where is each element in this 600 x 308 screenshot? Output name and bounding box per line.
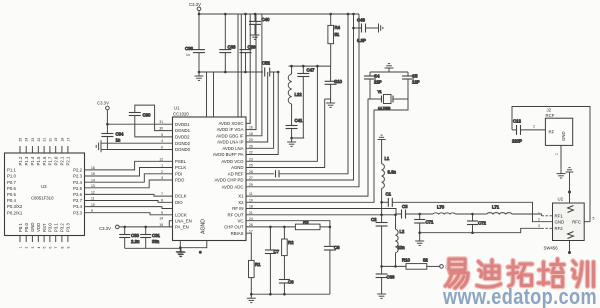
svg-text:P1.5: P1.5: [36, 156, 41, 165]
svg-text:AVDD LNA IP: AVDD LNA IP: [217, 140, 244, 145]
U2 bottom stub: [569, 241, 571, 252]
wire DGND0 row: [107, 149, 172, 151]
connector J2 RCF body: [545, 118, 572, 145]
wire AVDD_GBG_IF riser: [246, 14, 262, 136]
svg-text:16: 16: [91, 166, 95, 170]
capacitor C38: [219, 14, 236, 72]
wire CHP_OUT line: [246, 226, 295, 228]
wire P3.4 pin10 to U1: [85, 207, 173, 209]
svg-text:21: 21: [249, 211, 253, 215]
svg-text:P2.1: P2.1: [66, 156, 71, 165]
node TX upper: [380, 201, 383, 204]
svg-text:3: 3: [538, 224, 540, 228]
wire X2 to crystal: [246, 99, 408, 202]
capacitor C4: [364, 72, 382, 85]
wire C8 bottom: [329, 250, 331, 294]
U2 top stub: [569, 176, 571, 203]
DVDD feed to U1 top b: [213, 72, 215, 117]
capacitor C47: [297, 66, 315, 76]
svg-text:12P: 12P: [412, 80, 420, 85]
capacitor C39: [240, 14, 256, 72]
MCU U3 C8051F310 body: [5, 153, 85, 236]
svg-text:14: 14: [159, 217, 163, 221]
ground below J2: [557, 170, 566, 178]
svg-text:RF IN: RF IN: [232, 206, 243, 211]
U1 right pin name labels: [213, 121, 244, 236]
svg-text:26: 26: [249, 223, 253, 227]
capacitor C1: [386, 192, 393, 207]
svg-text:P1.3: P1.3: [24, 156, 29, 165]
svg-text:12: 12: [91, 191, 95, 195]
svg-text:RF OUT: RF OUT: [228, 212, 244, 217]
node C71 ground rail: [418, 231, 421, 234]
junction bypass rail left: [198, 71, 201, 74]
AVDD feed to U1 top c: [237, 14, 239, 117]
svg-text:P1.2: P1.2: [18, 156, 23, 165]
wire AVDD_VCO riser: [246, 66, 317, 161]
svg-text:3: 3: [161, 176, 163, 180]
wire C41 bottom: [292, 129, 305, 139]
svg-text:RBIAS: RBIAS: [231, 231, 244, 236]
svg-text:29: 29: [249, 183, 253, 187]
wire AVDD_ADC riser: [246, 14, 359, 187]
svg-text:10: 10: [91, 203, 95, 207]
wire P2.6 pin12 to U1 DCLK: [85, 194, 173, 196]
svg-text:18: 18: [249, 132, 253, 136]
capacitor C43 at AD_REF: [276, 170, 280, 177]
wire DGND2 to left ground: [101, 142, 173, 144]
svg-text:1: 1: [538, 211, 540, 215]
wire C47 bottom to C41 node: [302, 77, 304, 139]
wire L2 bottom: [395, 253, 397, 267]
capacitor C72: [467, 214, 486, 226]
junction C31 top: [144, 226, 147, 229]
capacitor C46: [354, 18, 366, 44]
capacitor C7: [265, 227, 280, 254]
svg-text:R2: R2: [288, 240, 294, 245]
supply terminal C3.3V (top): [197, 7, 201, 11]
resistor R4: [328, 14, 341, 66]
capacitor C36: [185, 46, 205, 72]
junction U2 bottom: [568, 251, 571, 254]
svg-text:C3: C3: [402, 204, 408, 209]
capacitor C94: [101, 124, 124, 149]
svg-text:11: 11: [249, 192, 253, 196]
svg-text:GND: GND: [561, 131, 566, 141]
svg-text:24: 24: [25, 138, 29, 142]
capacitor C12: [512, 119, 522, 144]
dashed pin stub RF2: [542, 227, 553, 229]
watermark red character di: [477, 260, 501, 287]
wire AD_REF to cap: [246, 173, 274, 175]
node TX lower: [380, 214, 383, 217]
svg-text:P2.0: P2.0: [54, 156, 59, 165]
svg-text:P3.2: P3.2: [60, 223, 65, 232]
svg-text:82: 82: [423, 258, 428, 263]
svg-text:6.8P: 6.8P: [357, 38, 366, 43]
watermark red character xun: [573, 261, 594, 287]
svg-text:12: 12: [159, 157, 163, 161]
wire C7 bottom: [269, 254, 271, 295]
svg-text:PCLK: PCLK: [175, 165, 186, 170]
svg-text:DGND2: DGND2: [175, 141, 191, 146]
svg-text:C46: C46: [357, 18, 365, 23]
svg-text:22: 22: [37, 138, 41, 142]
svg-text:L22: L22: [295, 92, 303, 97]
RF switch U2 body: [553, 203, 585, 241]
svg-text:J2: J2: [547, 108, 552, 113]
capacitor C41: [286, 118, 303, 129]
node L2 top: [394, 214, 397, 217]
wire AGND to C10 ground: [325, 98, 331, 100]
U3 left side pin name labels: [7, 168, 23, 216]
ground right of C31: [177, 248, 186, 256]
wire C12 to J2 RF: [521, 129, 546, 131]
svg-text:25: 25: [249, 164, 253, 168]
svg-text:CHP OUT: CHP OUT: [224, 225, 244, 230]
svg-text:AVDD GBG IF: AVDD GBG IF: [216, 133, 244, 138]
svg-text:P0.6: P0.6: [7, 186, 16, 191]
wire C1 left stub: [382, 201, 389, 203]
svg-text:L70: L70: [437, 205, 445, 210]
junction C7 top: [269, 226, 272, 229]
svg-text:20: 20: [48, 138, 52, 142]
svg-text:C94: C94: [116, 132, 124, 137]
svg-text:C3.3V: C3.3V: [97, 101, 109, 106]
wire U1 AGND stub: [180, 241, 207, 248]
ground above L1: [378, 135, 386, 143]
svg-text:P0.2/X1: P0.2/X1: [7, 210, 23, 215]
svg-text:9: 9: [161, 211, 163, 215]
junction C47 top: [302, 65, 305, 68]
wire P3.3 pin9 to U1 LOCK: [85, 213, 173, 215]
ground below R1: [247, 294, 256, 302]
svg-text:RCF: RCF: [546, 113, 555, 118]
U1 left pin name labels: [175, 122, 192, 230]
svg-text:2.2u: 2.2u: [131, 239, 140, 244]
svg-text:P0.5: P0.5: [7, 192, 16, 197]
svg-text:www.edatop.com: www.edatop.com: [442, 284, 597, 308]
svg-text:2: 2: [538, 217, 540, 221]
svg-text:AVDD CHP PD: AVDD CHP PD: [214, 178, 243, 183]
svg-text:C6: C6: [288, 280, 294, 285]
svg-text:U2: U2: [558, 197, 564, 202]
svg-text:VDD: VDD: [36, 223, 41, 232]
wire RFC to feed loop: [584, 221, 590, 223]
svg-text:20: 20: [249, 138, 253, 142]
junction C38 bottom: [224, 71, 227, 74]
svg-text:8: 8: [60, 247, 64, 249]
svg-text:1n: 1n: [186, 53, 190, 57]
wire C71 bottom: [419, 223, 421, 237]
svg-text:18: 18: [60, 138, 64, 142]
svg-text:X1: X1: [238, 194, 244, 199]
junction C46 tap: [352, 27, 355, 30]
svg-text:22P: 22P: [374, 80, 382, 85]
junction R2 top: [283, 226, 286, 229]
wire 3.3V to PA_EN: [119, 226, 172, 228]
svg-text:AVDD BUFF PA: AVDD BUFF PA: [213, 152, 244, 157]
wire AVDD_LNA_IP riser: [246, 72, 268, 142]
svg-text:C52: C52: [262, 61, 270, 66]
capacitor C6: [279, 256, 294, 285]
svg-text:U3: U3: [41, 184, 47, 189]
crystal top rail: [370, 71, 408, 73]
wire C5 leg: [407, 79, 409, 99]
svg-text:PSEL: PSEL: [175, 159, 187, 164]
svg-text:AD REF: AD REF: [228, 171, 244, 176]
svg-text:P2.7: P2.7: [73, 198, 82, 203]
terminal circle 3.3V PA: [440, 265, 444, 269]
svg-text:C3.3V: C3.3V: [99, 226, 111, 231]
U1 left pin numbers: [159, 120, 163, 227]
capacitor C66: [376, 266, 395, 279]
svg-text:P2.6: P2.6: [73, 192, 82, 197]
svg-text:P1.0: P1.0: [7, 174, 16, 179]
svg-text:4: 4: [161, 139, 163, 143]
svg-text:C10: C10: [334, 79, 342, 84]
U3 top inner port labels (rotated): [18, 156, 71, 165]
node R10 left b: [394, 265, 397, 268]
svg-text:P0.4: P0.4: [7, 198, 16, 203]
rail junction CHP_PD riser: [352, 13, 355, 16]
svg-text:PDI: PDI: [175, 171, 182, 176]
wire R3 to C8: [320, 226, 330, 228]
U3 top pin stubs: [20, 146, 68, 153]
capacitor C10: [325, 66, 343, 84]
svg-text:P2.2: P2.2: [73, 168, 82, 173]
svg-text:P3.0: P3.0: [48, 223, 53, 232]
wire C46 right: [366, 27, 376, 29]
svg-text:3.3n: 3.3n: [388, 170, 397, 175]
wire C6 bottom: [283, 283, 285, 294]
svg-text:SW456: SW456: [544, 246, 559, 251]
svg-text:P3.3: P3.3: [66, 223, 71, 232]
svg-text:C40: C40: [262, 17, 270, 22]
wire C1 to switch GND pin: [392, 202, 552, 221]
wire top 3.3V drop: [198, 11, 200, 14]
svg-text:C71: C71: [426, 220, 434, 225]
svg-text:C3.3V: C3.3V: [189, 2, 201, 7]
wire AVDD_XOSC riser: [246, 14, 250, 123]
svg-text:23: 23: [31, 138, 35, 142]
junction AGND stub right: [199, 251, 202, 254]
AVDD VCO distribution line: [289, 65, 331, 67]
U2 pin numbers 1 2 3: [538, 211, 540, 228]
inductor L22: [288, 66, 302, 104]
wire L1 bottom to RF node: [381, 189, 383, 215]
watermark red character tuo: [508, 261, 532, 287]
wire RBIAS: [246, 233, 251, 260]
svg-text:9: 9: [91, 209, 93, 213]
U3 top pin numbers (rotated): [19, 138, 71, 142]
svg-text:AGND: AGND: [231, 165, 243, 170]
junction C8 top: [329, 226, 332, 229]
svg-text:P0.3/X2: P0.3/X2: [7, 204, 23, 209]
svg-text:P2.1: P2.1: [60, 156, 65, 165]
svg-text:DIO: DIO: [175, 200, 183, 205]
svg-text:P2.5: P2.5: [73, 186, 82, 191]
svg-text:14: 14: [91, 178, 95, 182]
junction R1 bottom: [250, 293, 253, 296]
capacitor C40: [249, 14, 270, 24]
wire C72 bottom: [472, 225, 474, 233]
wire P2.4 pin14 to U1 PDI: [85, 174, 173, 182]
wire L70 to C72 node: [456, 213, 473, 215]
svg-text:C4: C4: [374, 74, 380, 79]
svg-text:P1.7: P1.7: [48, 156, 53, 165]
svg-text:R3: R3: [303, 220, 309, 225]
capacitor C8: [324, 227, 340, 250]
svg-text:P1.1: P1.1: [7, 168, 16, 173]
svg-text:51: 51: [335, 32, 340, 37]
wire R10 to terminal: [427, 265, 440, 267]
svg-text:19: 19: [249, 198, 253, 202]
ground right of C46: [376, 24, 383, 33]
wire AGND riser: [246, 99, 325, 168]
svg-text:23: 23: [249, 157, 253, 161]
top AVDD rail: [199, 13, 359, 15]
svg-text:C8051F310: C8051F310: [31, 196, 54, 201]
svg-text:RF2: RF2: [555, 226, 564, 231]
wire VC to filter tap: [246, 221, 330, 227]
capacitor C5: [402, 72, 420, 85]
wire P2.7 pin11 to U1 DIO: [85, 201, 173, 203]
wire P2.2 pin16 to U1 PSEL: [85, 161, 173, 170]
DVDD feed to U1 top a: [206, 72, 208, 117]
rail junction C39: [244, 13, 247, 16]
svg-text:P0.7: P0.7: [7, 180, 16, 185]
capacitor C30: [119, 227, 140, 248]
junction bypass rail right end: [277, 71, 280, 74]
svg-text:2: 2: [25, 247, 29, 249]
svg-text:17: 17: [249, 229, 253, 233]
svg-text:3: 3: [31, 247, 35, 249]
svg-text:25: 25: [19, 138, 23, 142]
svg-text:VC: VC: [238, 218, 244, 223]
second rail left: [198, 14, 200, 46]
ground below bypass rail: [195, 72, 204, 80]
svg-text:9: 9: [66, 247, 70, 249]
svg-text:1: 1: [555, 153, 559, 155]
svg-text:22n: 22n: [398, 245, 406, 250]
svg-text:AVDD VCO: AVDD VCO: [221, 159, 244, 164]
crystal Y1: [370, 90, 408, 111]
inductor L71: [473, 205, 513, 215]
svg-text:13: 13: [91, 184, 95, 188]
svg-text:C39: C39: [248, 45, 256, 50]
svg-text:AVDD ADC: AVDD ADC: [222, 184, 244, 189]
inductor L1: [382, 144, 397, 189]
inductor L70: [420, 205, 456, 215]
wire AVDD_IF_VGA riser: [246, 14, 256, 130]
svg-text:6: 6: [48, 247, 52, 249]
svg-text:RST: RST: [42, 223, 47, 232]
wire L71 to RF1: [512, 214, 542, 216]
capacitor C90: [129, 113, 151, 118]
watermark red character yi: [446, 259, 469, 288]
svg-text:19: 19: [54, 138, 58, 142]
svg-text:RF1: RF1: [555, 214, 564, 219]
ground below C10: [326, 99, 335, 107]
ground below C40: [251, 31, 260, 39]
svg-text:GND: GND: [555, 220, 565, 225]
U3 bottom inner port labels (rotated): [18, 222, 71, 232]
wire C2 bottom column: [381, 226, 383, 266]
svg-text:30: 30: [159, 127, 163, 131]
svg-text:DCLK: DCLK: [175, 194, 187, 199]
svg-text:C2: C2: [371, 217, 377, 222]
svg-text:15: 15: [91, 172, 95, 176]
svg-text:28: 28: [249, 170, 253, 174]
junction C41 ground: [290, 137, 293, 140]
ground below C41: [287, 138, 296, 146]
capacitor C52: [262, 61, 270, 77]
ground above crystal: [385, 64, 394, 72]
svg-text:DGND1: DGND1: [175, 128, 191, 133]
svg-text:1: 1: [161, 164, 163, 168]
wire AVDD_CHP_PD riser: [246, 14, 354, 180]
svg-text:R4: R4: [335, 25, 341, 30]
wire X1 to crystal: [246, 99, 370, 196]
svg-text:L71: L71: [492, 205, 500, 210]
U1 right pin numbers: [249, 120, 253, 234]
svg-text:31: 31: [159, 120, 163, 124]
junction C6 bottom: [283, 293, 286, 296]
wire C10 bottom: [330, 84, 332, 99]
svg-text:P0.1: P0.1: [18, 223, 23, 232]
capacitor C3: [396, 204, 408, 219]
rail junction R4: [329, 13, 332, 16]
U3 right side pin name labels: [73, 168, 82, 216]
svg-text:5: 5: [43, 247, 47, 249]
svg-text:26: 26: [249, 144, 253, 148]
svg-text:C12: C12: [513, 119, 521, 124]
capacitor C31: [140, 227, 160, 248]
svg-text:RF: RF: [549, 130, 555, 135]
resistor R1: [249, 260, 262, 294]
svg-text:21: 21: [43, 138, 47, 142]
J2 feed loop: [512, 107, 590, 222]
RF transceiver U1 CC1020 body: [173, 117, 247, 241]
svg-text:LNA_EN: LNA_EN: [175, 218, 192, 223]
wire bias line: [382, 265, 406, 267]
wire LNA_EN jog: [169, 221, 172, 227]
svg-text:P0.0: P0.0: [24, 223, 29, 232]
svg-text:11: 11: [91, 197, 95, 201]
loop filter ground rail: [251, 293, 330, 295]
svg-text:2: 2: [533, 125, 535, 129]
wire C40 to ground: [254, 24, 256, 31]
svg-text:P2.3: P2.3: [73, 174, 82, 179]
svg-text:C5: C5: [412, 74, 418, 79]
ground left of C94: [96, 140, 101, 152]
wire P2.3 pin15 to U1 PCLK: [85, 168, 173, 177]
wire C90 top to DGND1: [135, 105, 173, 131]
rail junction C38: [224, 13, 227, 16]
svg-text:CC1020: CC1020: [173, 112, 189, 117]
svg-text:15: 15: [159, 223, 163, 227]
svg-text:C7: C7: [274, 249, 280, 254]
ground below U1: [176, 248, 185, 256]
svg-text:17: 17: [66, 138, 70, 142]
svg-text:33n: 33n: [152, 239, 160, 244]
svg-text:4: 4: [37, 247, 41, 249]
svg-text:LOCK: LOCK: [175, 212, 187, 217]
resistor R10: [402, 258, 428, 270]
wire C30 C31 ground rail: [125, 247, 181, 249]
capacitor C2: [371, 215, 388, 226]
